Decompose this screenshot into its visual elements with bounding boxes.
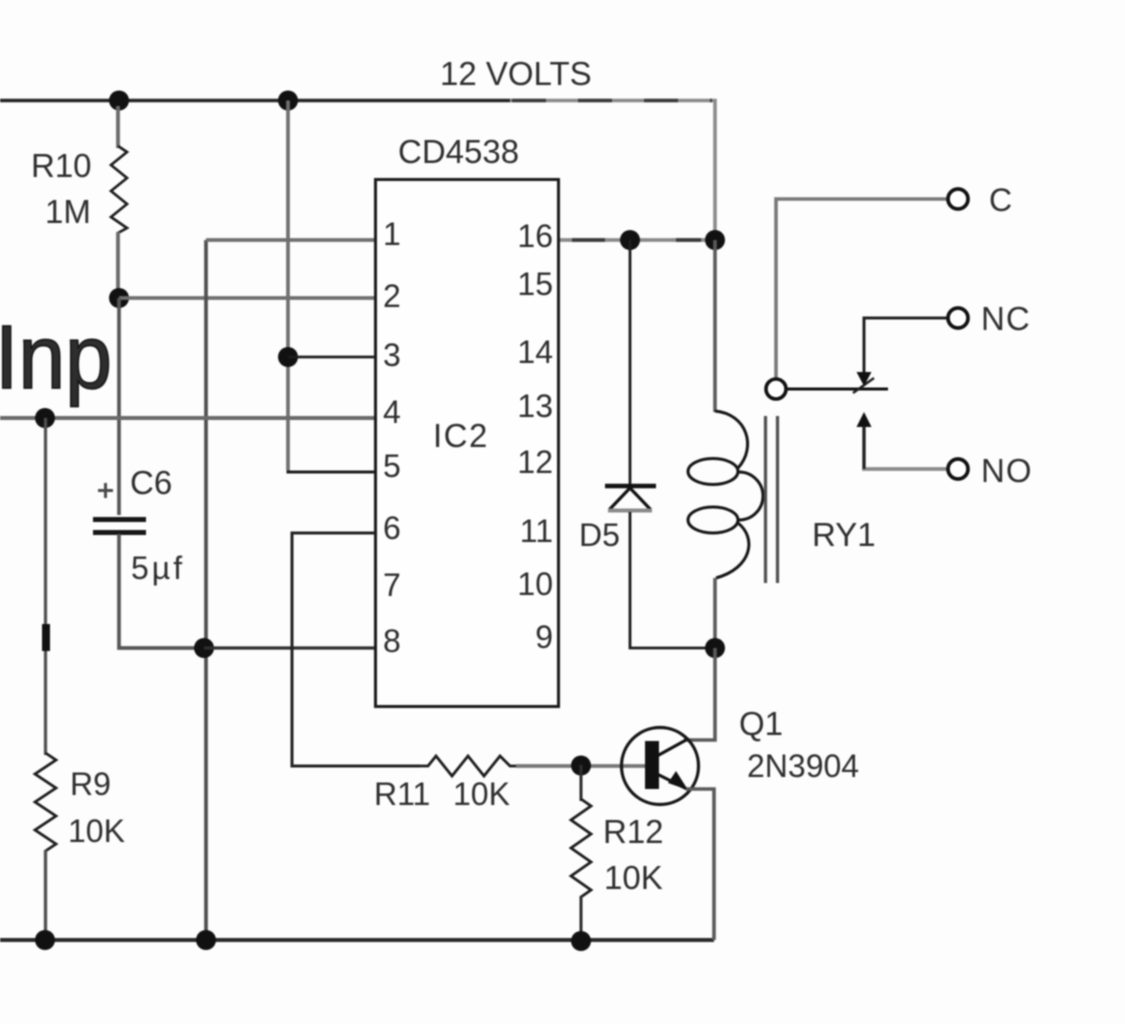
svg-text:11: 11 <box>520 513 553 549</box>
svg-text:R9: R9 <box>70 766 111 802</box>
svg-text:13: 13 <box>517 388 553 424</box>
svg-text:14: 14 <box>517 334 553 370</box>
svg-text:15: 15 <box>517 266 553 302</box>
node 12V junction at R10 <box>109 91 129 111</box>
node 12V junction at x288 <box>278 91 298 111</box>
node pin16-D5 junction <box>620 230 640 250</box>
node base junction <box>571 756 591 776</box>
wire C terminal <box>776 199 948 378</box>
node input junction <box>35 408 55 428</box>
node bottom rail R12 <box>571 931 591 951</box>
relay armature pivot <box>766 379 786 399</box>
wire R10 node to C6 <box>117 298 121 515</box>
wire pin3 <box>288 356 375 359</box>
wire R11 to Q1 base <box>516 764 646 768</box>
wire NC terminal <box>864 318 948 376</box>
svg-text:C6: C6 <box>130 464 172 501</box>
node coil-D5-collector junction <box>705 638 725 658</box>
node bottom rail x206 <box>196 930 216 950</box>
diode D5 <box>605 240 706 648</box>
wire x288 vertical from top to pin5 <box>286 101 290 471</box>
wire pin2 <box>119 296 375 300</box>
NO arrow stem <box>863 427 866 469</box>
wire coil bottom to junction <box>713 578 717 648</box>
IC2 right pin numbers 9-16 <box>517 218 553 655</box>
resistor R9 <box>35 753 56 851</box>
resistor R12 <box>580 765 583 801</box>
wire top 12V rail <box>0 101 715 241</box>
svg-text:2: 2 <box>383 278 401 314</box>
svg-text:C: C <box>989 182 1012 218</box>
wire Q1 emitter to bottom rail <box>686 789 714 940</box>
wire relay coil feed <box>713 240 717 412</box>
wire NO terminal <box>864 428 948 469</box>
svg-text:10K: 10K <box>604 859 663 896</box>
IC U-IC2 CD4538 box <box>376 180 559 707</box>
svg-text:Inp: Inp <box>0 308 112 408</box>
svg-text:R12: R12 <box>603 813 664 850</box>
wire junction to Q1 collector <box>684 648 715 740</box>
node bottom rail R9 <box>35 930 55 950</box>
relay RY1 coil <box>688 411 763 578</box>
R9 wire thick mark <box>42 624 50 651</box>
svg-text:1: 1 <box>383 216 401 252</box>
svg-text:12: 12 <box>517 444 553 480</box>
wire pin1 vertical bus x206 <box>204 240 208 940</box>
svg-text:10: 10 <box>517 566 553 602</box>
label R12 value 10K <box>603 813 664 896</box>
NO arrowhead <box>857 412 872 427</box>
wire pin8 <box>204 646 375 649</box>
capacitor C6 <box>93 520 146 533</box>
node pin16-relay junction <box>705 230 725 250</box>
svg-text:5µf: 5µf <box>131 550 185 586</box>
relay RY1 core bars <box>766 416 778 583</box>
relay armature arm <box>787 388 888 391</box>
node R10 bottom / pin2 junction <box>109 288 129 308</box>
svg-text:2N3904: 2N3904 <box>747 748 859 784</box>
node pin8 junction <box>194 638 214 658</box>
label R10 value 1M <box>31 147 92 230</box>
svg-text:RY1: RY1 <box>812 516 876 553</box>
wire bottom rail <box>0 938 714 942</box>
svg-text:6: 6 <box>383 510 401 546</box>
svg-text:10K: 10K <box>453 776 510 812</box>
IC2 left pin numbers 1-8 <box>383 216 401 659</box>
wire input rail pin4 <box>0 416 375 420</box>
resistor R10 <box>111 106 127 294</box>
wire pin5 <box>287 471 376 474</box>
svg-text:CD4538: CD4538 <box>398 133 519 170</box>
wire pin16 <box>560 238 715 242</box>
svg-text:R10: R10 <box>31 147 92 184</box>
svg-text:8: 8 <box>383 623 401 659</box>
svg-text:NO: NO <box>981 452 1033 489</box>
armature contact tick <box>853 378 874 393</box>
wire input node down to R9 <box>44 418 47 755</box>
label R9 value 10K <box>68 766 125 849</box>
terminal NC circle <box>948 308 968 328</box>
svg-text:5: 5 <box>383 448 401 484</box>
svg-text:7: 7 <box>383 567 401 603</box>
svg-text:4: 4 <box>383 394 401 430</box>
resistor R11 <box>420 756 516 776</box>
svg-text:NC: NC <box>981 300 1031 337</box>
label Q1 2N3904 <box>739 705 859 784</box>
transistor Q1 <box>622 728 699 805</box>
terminal C circle <box>948 189 968 209</box>
node pin3 junction <box>278 347 298 367</box>
wire pin1 horizontal <box>206 238 375 242</box>
svg-text:3: 3 <box>383 337 401 373</box>
svg-text:16: 16 <box>517 218 553 254</box>
svg-text:D5: D5 <box>579 517 620 553</box>
svg-text:12 VOLTS: 12 VOLTS <box>440 55 592 92</box>
terminal NO circle <box>948 459 968 479</box>
svg-text:R11: R11 <box>374 776 430 812</box>
NC arrowhead <box>857 372 872 386</box>
wire C6 bottom to pin8 node <box>119 534 198 648</box>
label R11 10K <box>374 776 510 812</box>
svg-text:9: 9 <box>535 619 553 655</box>
svg-text:10K: 10K <box>68 813 125 849</box>
C6 plus sign <box>98 483 113 498</box>
wire pin6 to R11 <box>292 533 420 766</box>
svg-text:1M: 1M <box>45 193 91 230</box>
svg-text:Q1: Q1 <box>739 705 783 742</box>
svg-text:IC2: IC2 <box>433 417 489 454</box>
